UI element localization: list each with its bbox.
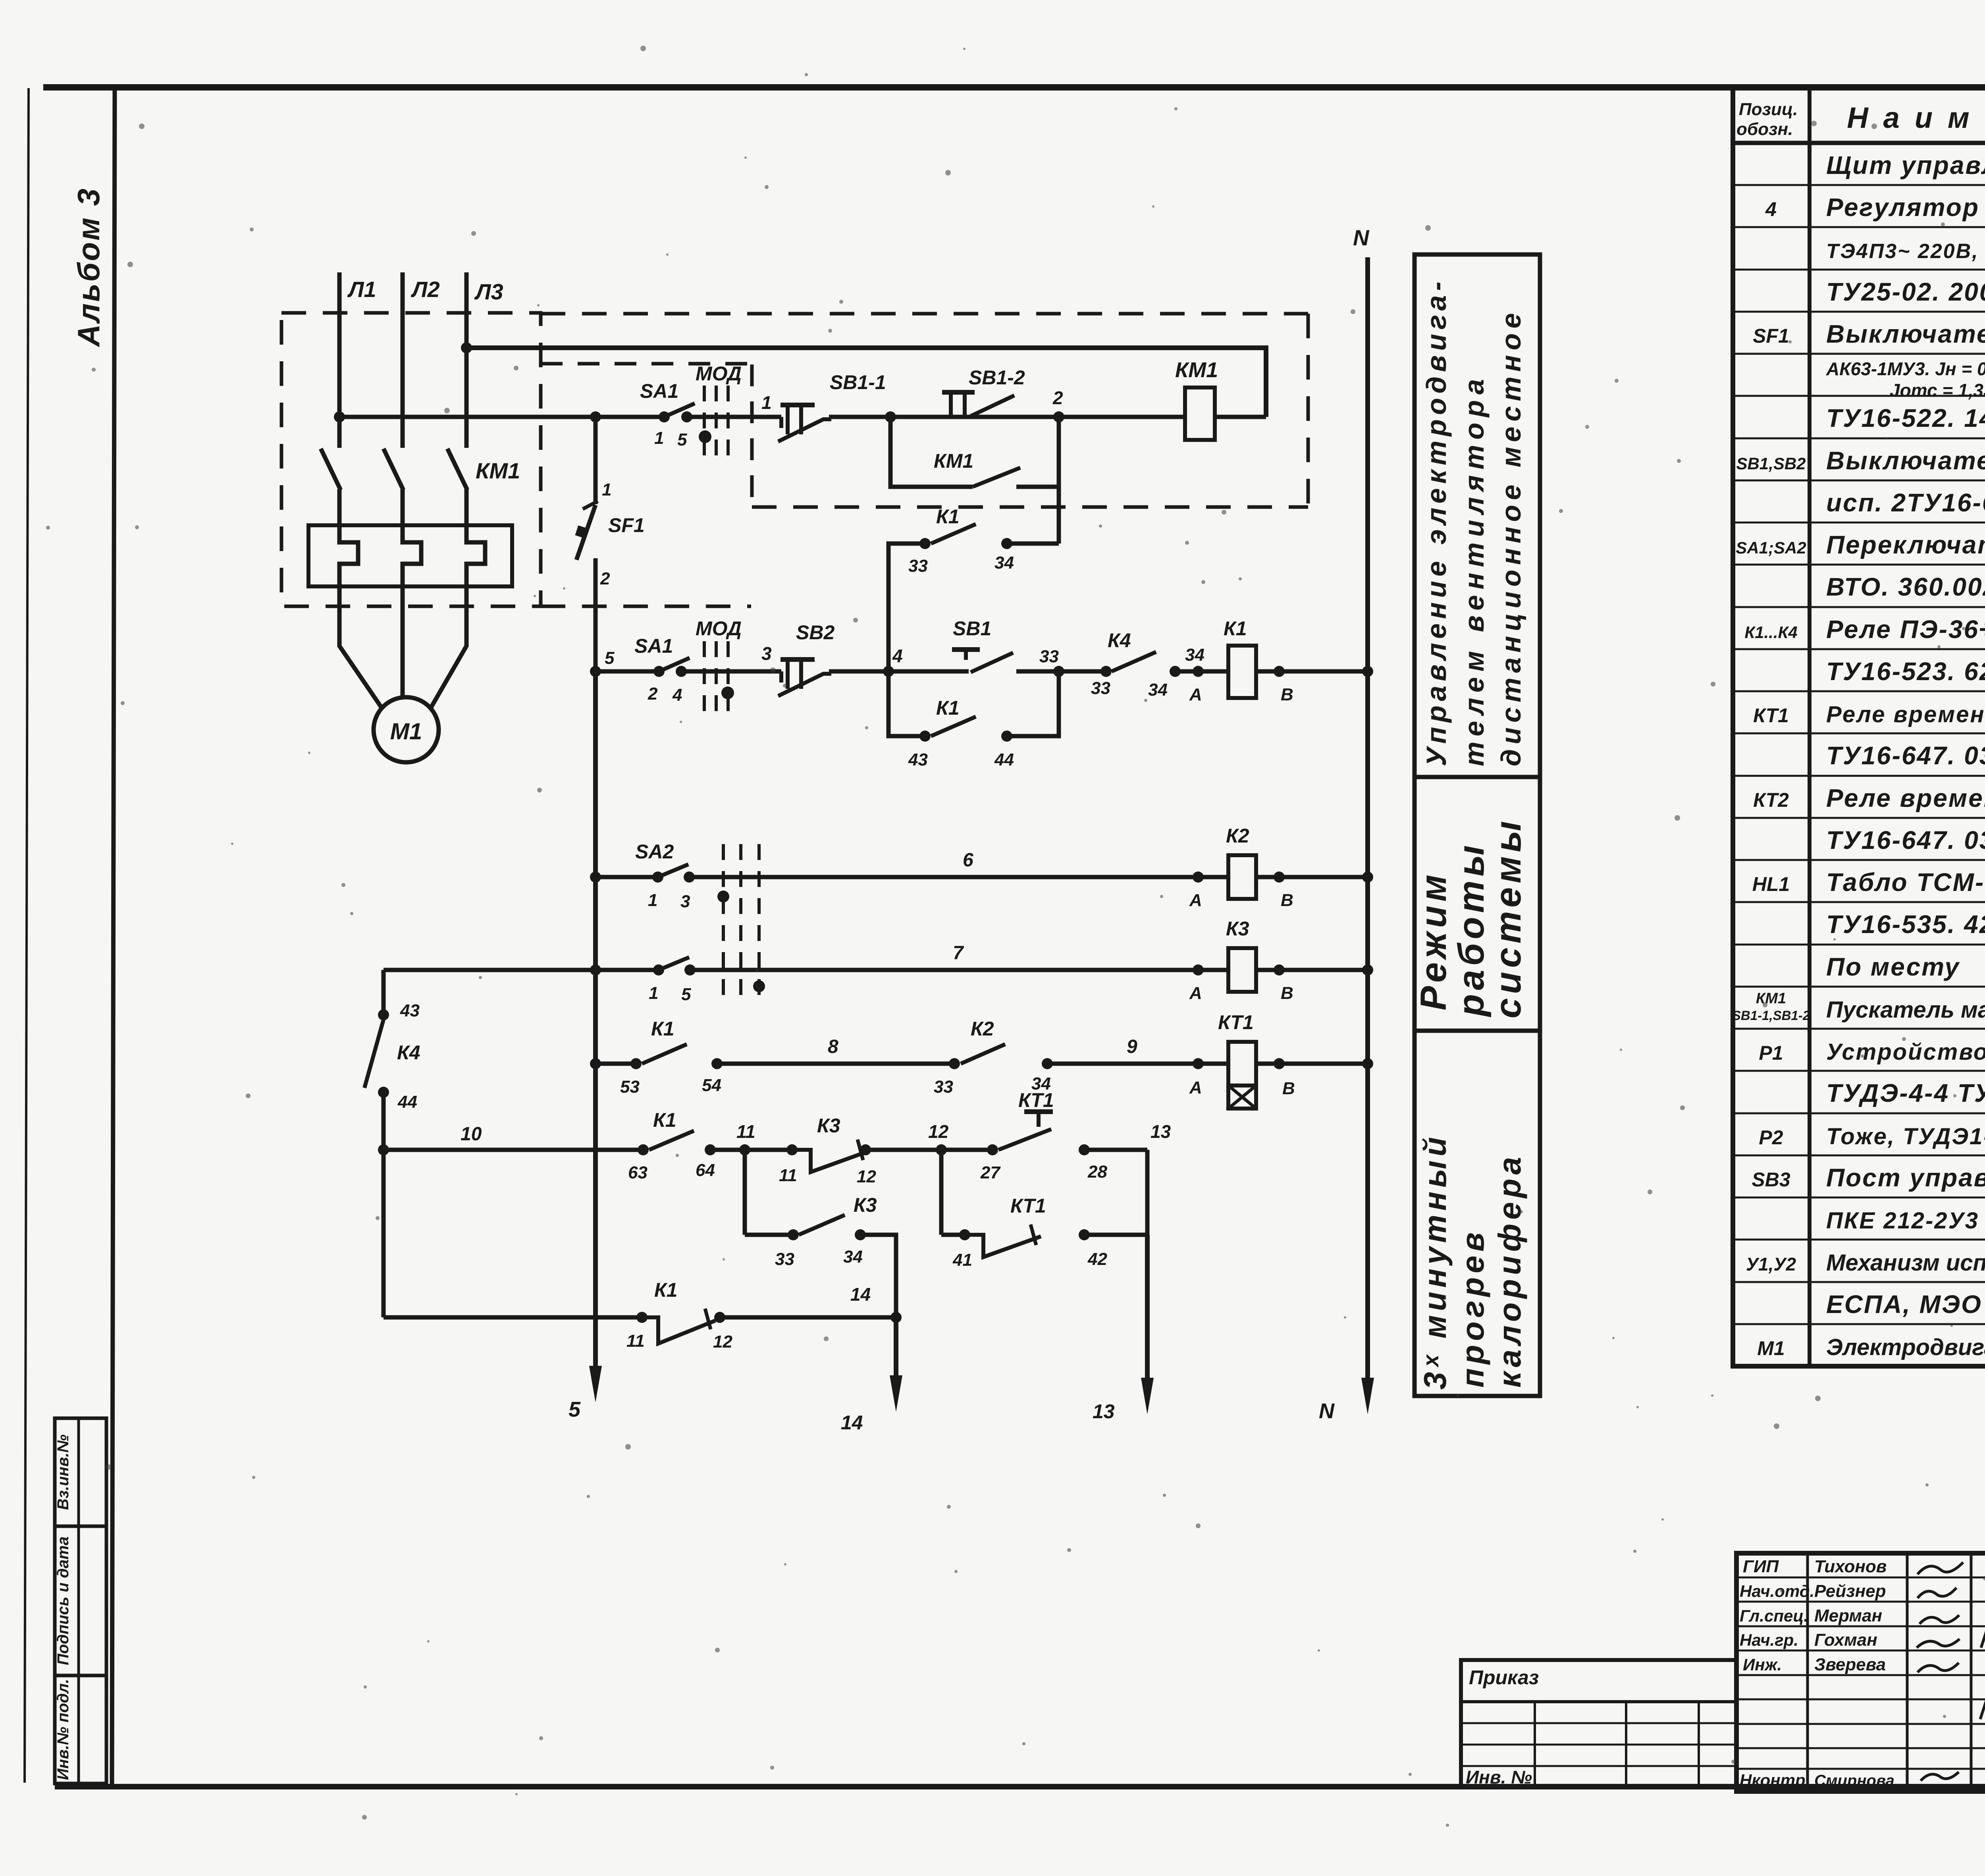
svg-text:SA1: SA1 <box>640 380 678 402</box>
relay contact K2 33-34 <box>949 1058 960 1069</box>
svg-text:КМ1: КМ1 <box>934 450 973 472</box>
terminal B dot rung 8 <box>1274 1058 1285 1069</box>
svg-text:Jотс = 1,3Jн: Jотс = 1,3Jн <box>1890 380 1985 401</box>
svg-text:К4: К4 <box>397 1041 420 1064</box>
svg-text:К1: К1 <box>936 697 960 719</box>
svg-text:34: 34 <box>994 553 1014 573</box>
svg-text:64: 64 <box>696 1161 715 1180</box>
relay contact K4 terminal 43 <box>378 1009 389 1020</box>
wire rung 2 to coil K1 <box>1175 669 1228 674</box>
svg-text:9: 9 <box>1127 1036 1137 1057</box>
contactor coil KM1 <box>1185 388 1215 440</box>
svg-text:27: 27 <box>980 1163 1001 1182</box>
svg-text:Альбом 3: Альбом 3 <box>71 187 106 347</box>
svg-text:3ˣ минутный: 3ˣ минутный <box>1417 1133 1453 1390</box>
svg-text:обозн.: обозн. <box>1736 120 1793 139</box>
svg-text:А: А <box>1189 685 1202 704</box>
contactor KM1 main contact pole 1 <box>321 449 341 490</box>
svg-text:КТ1: КТ1 <box>1018 1089 1054 1111</box>
svg-text:SB1-2: SB1-2 <box>969 366 1025 389</box>
svg-text:Подпись и дата: Подпись и дата <box>54 1537 72 1665</box>
terminal B dot rung 7 <box>1274 964 1285 976</box>
svg-text:А: А <box>1189 1078 1202 1097</box>
relay contact K1 43-44 <box>919 731 931 742</box>
svg-text:Нконтр.: Нконтр. <box>1740 1771 1810 1789</box>
node 11 junction <box>739 1144 750 1155</box>
svg-text:N: N <box>1319 1399 1335 1423</box>
svg-text:К1...К4: К1...К4 <box>1744 623 1797 642</box>
svg-text:Гл.спец.: Гл.спец. <box>1740 1606 1808 1625</box>
terminal A dot rung 7 <box>1193 964 1204 976</box>
relay contact K1 43-44 branch wire down <box>888 671 925 736</box>
svg-text:Табло ТСМ-III-У3: Табло ТСМ-III-У3 <box>1826 868 1985 897</box>
switch SA1 contact rung 1 <box>659 411 670 422</box>
wire rung 10 middle <box>865 1148 992 1152</box>
terminal B dot rung 6 <box>1274 871 1285 883</box>
svg-text:33: 33 <box>1039 647 1059 666</box>
dashed enclosure: control section bottom edge <box>752 505 1308 509</box>
wire rung 10 after K1 <box>710 1148 792 1152</box>
function box: fan motor control <box>1415 255 1540 777</box>
rung 7 junction on bus <box>590 964 601 976</box>
svg-text:SB1-1: SB1-1 <box>830 371 886 393</box>
svg-text:ГИП: ГИП <box>1743 1557 1779 1576</box>
component table header row <box>1733 141 1985 145</box>
svg-text:54: 54 <box>702 1076 721 1095</box>
svg-text:ТУ16-647. 036-86: ТУ16-647. 036-86 <box>1826 741 1985 770</box>
svg-text:6: 6 <box>963 850 973 871</box>
svg-text:Нач.отд.: Нач.отд. <box>1740 1582 1814 1600</box>
svg-text:ТУ16-522. 140-78: ТУ16-522. 140-78 <box>1826 404 1985 432</box>
rung 10 corner down <box>1145 1150 1150 1235</box>
svg-text:4: 4 <box>1765 198 1777 220</box>
margin stamp box: Подпись и дата <box>55 1526 106 1675</box>
svg-text:34: 34 <box>843 1247 863 1267</box>
svg-text:42: 42 <box>1087 1249 1107 1269</box>
svg-text:63: 63 <box>628 1163 648 1182</box>
wire rung 2 after SB1 <box>1016 669 1106 674</box>
svg-text:43: 43 <box>908 750 928 769</box>
svg-text:44: 44 <box>994 750 1014 769</box>
svg-text:КМ1: КМ1 <box>1756 990 1786 1007</box>
svg-text:Выключатель автоматический: Выключатель автоматический <box>1826 320 1985 348</box>
dashed enclosure: control section top edge <box>541 312 1308 316</box>
svg-text:53: 53 <box>620 1077 640 1097</box>
relay coil K3 <box>1228 948 1256 992</box>
component table outer border <box>1733 87 1985 1366</box>
svg-text:1: 1 <box>602 480 611 499</box>
time relay coil KT1 <box>1228 1042 1256 1085</box>
wire rung 2 to N <box>1256 669 1368 674</box>
pushbutton SB1 contact <box>952 647 980 652</box>
svg-text:3: 3 <box>680 892 690 911</box>
svg-text:12: 12 <box>857 1167 876 1186</box>
K4 branch junction with rung 10 <box>378 1144 389 1155</box>
svg-text:Реле времени ВЛ-65 УХЛ4: Реле времени ВЛ-65 УХЛ4 <box>1826 784 1985 812</box>
svg-text:34: 34 <box>1148 680 1168 700</box>
svg-text:К1: К1 <box>654 1279 678 1301</box>
svg-text:Пост управления кнопочный: Пост управления кнопочный <box>1826 1163 1985 1192</box>
svg-text:К1: К1 <box>653 1109 676 1131</box>
svg-text:Приказ: Приказ <box>1469 1666 1539 1689</box>
svg-text:Р2: Р2 <box>1759 1126 1783 1149</box>
switch SA2 contact rung 6 <box>652 871 663 883</box>
terminal B dot rung 2 <box>1274 666 1285 677</box>
svg-text:Инв. №: Инв. № <box>1466 1767 1532 1787</box>
svg-text:13: 13 <box>1151 1121 1171 1142</box>
svg-text:10: 10 <box>461 1124 482 1145</box>
left control bus upper <box>594 558 598 671</box>
svg-text:Электродвигатель: Электродвигатель <box>1826 1334 1985 1360</box>
svg-text:А: А <box>1189 891 1202 910</box>
wire rung 8 left <box>595 1062 636 1066</box>
prikaz box border <box>1461 1660 1736 1787</box>
circuit breaker SF1 <box>583 501 598 509</box>
svg-text:11: 11 <box>779 1166 797 1185</box>
dashed enclosure: power cabinet <box>281 313 541 606</box>
MOD linkage dot rung 2 <box>721 686 734 699</box>
svg-text:КМ1: КМ1 <box>1175 358 1218 382</box>
svg-text:Тоже, ТУДЭ1-4 ТУ25-7323-0001-8: Тоже, ТУДЭ1-4 ТУ25-7323-0001-88 <box>1826 1124 1985 1149</box>
svg-text:Рейзнер: Рейзнер <box>1814 1581 1886 1601</box>
svg-text:4: 4 <box>892 646 903 666</box>
svg-text:Реле ПЭ-36÷162 У3: Реле ПЭ-36÷162 У3 <box>1826 615 1985 644</box>
junction on N bus rung 7 <box>1362 964 1373 976</box>
wire rung 1 left segment <box>339 415 664 419</box>
function box: system mode <box>1415 777 1540 1031</box>
left bus arrow <box>589 1366 602 1402</box>
svg-text:Нач.гр.: Нач.гр. <box>1740 1631 1798 1649</box>
svg-text:Наименование: Наименование <box>1847 101 1985 134</box>
svg-text:41: 41 <box>952 1250 972 1270</box>
svg-text:12: 12 <box>713 1332 732 1352</box>
svg-text:5: 5 <box>605 648 615 668</box>
wire rung 7 to coil <box>690 968 1228 972</box>
sheet fold line left <box>25 88 29 1783</box>
motor M1 <box>374 697 439 762</box>
svg-text:исп. 2ТУ16-642.015-84: исп. 2ТУ16-642.015-84 <box>1826 488 1985 517</box>
wire rung 14 <box>384 1315 642 1320</box>
svg-text:4: 4 <box>672 685 682 705</box>
svg-text:Регулятор температуры: Регулятор температуры <box>1826 193 1985 222</box>
phase line L3 <box>464 272 469 448</box>
KM1 holding contact branch wire <box>890 417 973 487</box>
relay coil K2 <box>1228 855 1256 899</box>
svg-text:1: 1 <box>648 891 657 910</box>
svg-text:8: 8 <box>828 1036 838 1057</box>
MOD linkage dot rung 1 <box>699 430 711 443</box>
relay contact K3 11-12 break <box>786 1144 798 1155</box>
terminal A dot rung 2 <box>1193 666 1204 677</box>
wire 13 down to arrow <box>1145 1235 1150 1389</box>
svg-text:А: А <box>1189 983 1202 1003</box>
svg-text:Л1: Л1 <box>347 277 376 302</box>
relay contact K1 33-34 <box>919 538 931 549</box>
KM1 holding contact <box>973 468 1020 487</box>
svg-text:1: 1 <box>649 983 658 1003</box>
branch wire to node 13 <box>1084 1233 1147 1237</box>
svg-text:Мерман: Мерман <box>1814 1606 1882 1625</box>
svg-text:КТ1: КТ1 <box>1010 1195 1046 1217</box>
svg-text:Р1: Р1 <box>1759 1042 1783 1064</box>
svg-text:К1: К1 <box>936 505 960 528</box>
svg-text:1: 1 <box>761 392 772 413</box>
svg-text:SF1: SF1 <box>608 514 645 536</box>
node 12 branch wire down <box>939 1150 944 1235</box>
dashed enclosure: control section right edge <box>1307 314 1310 507</box>
svg-text:ТУ16-523. 622-82: ТУ16-523. 622-82 <box>1826 657 1985 686</box>
svg-text:34: 34 <box>1185 645 1204 665</box>
svg-text:SB1,SB2: SB1,SB2 <box>1736 454 1806 473</box>
relay contact K1 33-34 branch wire up <box>888 544 925 671</box>
svg-text:К3: К3 <box>854 1194 877 1216</box>
wire rung 6 to N <box>1256 875 1368 879</box>
terminal A dot rung 6 <box>1193 871 1204 883</box>
svg-text:ТЭ4П3~ 220В, 0÷40°С 50М: ТЭ4П3~ 220В, 0÷40°С 50М <box>1826 240 1985 263</box>
margin stamp boxes divider <box>77 1418 80 1783</box>
dashed enclosure: control section left edge <box>750 364 754 510</box>
svg-text:ТУ16-535. 424-79: ТУ16-535. 424-79 <box>1826 910 1985 939</box>
svg-text:К2: К2 <box>1226 825 1249 847</box>
SA2 linkage dashed lines <box>722 844 725 997</box>
phase line L2 <box>401 272 405 448</box>
relay contact K1 11-12 break <box>636 1312 648 1323</box>
frame top border <box>43 84 1985 91</box>
svg-text:28: 28 <box>1087 1162 1107 1182</box>
svg-text:SB3: SB3 <box>1752 1168 1790 1191</box>
svg-text:К3: К3 <box>1226 918 1249 940</box>
svg-text:АК63-1МУ3. Jн = 0,6А: АК63-1МУ3. Jн = 0,6А <box>1826 359 1985 379</box>
margin stamp box: Инв. № подл. <box>55 1675 106 1783</box>
svg-text:Л2: Л2 <box>410 277 440 302</box>
thermal overload relay block <box>308 525 512 586</box>
wire 14 down to arrow <box>894 1317 898 1386</box>
limit switch SB1-1 contact <box>779 417 783 428</box>
prikaz box columns <box>1534 1702 1536 1787</box>
wire rung 1 to supply loop <box>1215 415 1266 419</box>
branch from rung 1 to SF1 <box>590 411 601 422</box>
svg-text:11: 11 <box>736 1121 755 1142</box>
left control bus <box>593 671 598 1377</box>
junction on N bus rung 2 <box>1362 666 1373 677</box>
node 11 branch wire down <box>743 1150 747 1235</box>
svg-text:Переключатель П2Т-1: Переключатель П2Т-1 <box>1826 530 1985 559</box>
junction on N bus rung 8 <box>1362 1058 1373 1069</box>
svg-text:К3: К3 <box>817 1114 840 1137</box>
wire rung 6 left <box>595 875 658 879</box>
svg-text:ВТО. 360.002 ТУ: ВТО. 360.002 ТУ <box>1826 573 1985 601</box>
relay contact K4 vertical <box>364 1020 384 1088</box>
title block signature rows <box>1736 1577 1985 1579</box>
svg-text:SA1;SA2: SA1;SA2 <box>1736 538 1806 557</box>
switch SA2 contact rung 7 <box>653 964 664 976</box>
svg-text:13: 13 <box>1093 1400 1115 1423</box>
arrow wire 13 <box>1141 1378 1154 1414</box>
wire rung 8 to coil <box>1047 1062 1228 1066</box>
MOD linkage dashed lines rung 1 <box>703 386 706 457</box>
svg-text:ТУДЭ-4-4 ТУ25-7323-0001-88: ТУДЭ-4-4 ТУ25-7323-0001-88 <box>1826 1079 1985 1107</box>
terminal A dot rung 8 <box>1193 1058 1204 1069</box>
svg-text:В: В <box>1281 685 1293 704</box>
signature slashes column <box>1981 1564 1985 1648</box>
rung 6 junction on bus <box>590 871 601 883</box>
frame left border <box>112 86 115 1789</box>
signature scribbles <box>1918 1562 1963 1574</box>
svg-text:ЕСПА, МЭО: ЕСПА, МЭО <box>1826 1290 1982 1319</box>
node 2 vertical wire <box>1057 417 1061 544</box>
svg-text:5: 5 <box>677 430 687 449</box>
margin stamp box: Вз. инв. № <box>55 1418 106 1526</box>
wire rung 2 left <box>595 669 659 674</box>
relay contact K1 53-54 <box>630 1058 642 1069</box>
wire rung 14 right <box>720 1315 896 1320</box>
relay contact K4 terminal 44 <box>378 1087 389 1098</box>
wire rung 2 middle <box>829 669 969 674</box>
K4 branch top wire <box>382 970 386 1015</box>
svg-text:Пускатель магнитный: Пускатель магнитный <box>1826 997 1985 1023</box>
svg-text:14: 14 <box>841 1411 863 1434</box>
svg-text:1: 1 <box>654 428 664 448</box>
svg-text:МОД: МОД <box>696 362 742 385</box>
wire rung 10 right <box>1084 1148 1147 1152</box>
svg-text:ТУ25-02. 200.353-84: ТУ25-02. 200.353-84 <box>1826 278 1985 306</box>
svg-text:Зверева: Зверева <box>1814 1655 1886 1674</box>
junction to KM1 holding contact <box>885 411 896 422</box>
svg-text:5: 5 <box>569 1398 581 1421</box>
svg-text:ПКЕ 212-2У3 ТУ16-642.006-83: ПКЕ 212-2У3 ТУ16-642.006-83 <box>1826 1208 1985 1234</box>
relay coil K1 <box>1228 646 1256 698</box>
svg-text:Устройство терморегулирующее: Устройство терморегулирующее <box>1826 1039 1985 1065</box>
svg-text:К1: К1 <box>651 1018 675 1040</box>
node 12 junction <box>936 1144 947 1155</box>
svg-text:33: 33 <box>1091 679 1110 698</box>
svg-text:Смирнова: Смирнова <box>1814 1772 1894 1789</box>
wire rung 2 to SB2 <box>681 669 781 674</box>
svg-text:12: 12 <box>928 1121 949 1142</box>
svg-text:SF1: SF1 <box>1753 325 1789 347</box>
svg-text:КТ1: КТ1 <box>1753 704 1789 727</box>
wire rung 6 to coil <box>689 875 1228 879</box>
svg-text:телем вентилятора: телем вентилятора <box>1459 374 1490 766</box>
svg-text:дистанционное местное: дистанционное местное <box>1495 308 1526 766</box>
node 4 junction <box>883 666 894 677</box>
svg-text:К2: К2 <box>971 1018 994 1040</box>
svg-text:3: 3 <box>761 643 772 664</box>
svg-text:2: 2 <box>648 684 658 704</box>
svg-text:Тихонов: Тихонов <box>1814 1557 1887 1576</box>
svg-text:Инв.№ подл.: Инв.№ подл. <box>54 1679 72 1780</box>
phase line L1 <box>337 272 342 448</box>
node 14 junction <box>890 1312 902 1323</box>
svg-text:У1,У2: У1,У2 <box>1746 1254 1796 1274</box>
svg-text:В: В <box>1282 1079 1295 1098</box>
svg-text:SB1: SB1 <box>953 617 991 640</box>
svg-text:33: 33 <box>908 556 928 576</box>
svg-text:В: В <box>1281 983 1293 1003</box>
svg-text:В: В <box>1281 891 1293 910</box>
svg-text:системы: системы <box>1488 817 1528 1018</box>
SA2 linkage dots <box>717 891 729 902</box>
svg-text:HL1: HL1 <box>1752 873 1790 895</box>
relay contact K1 63-64 <box>638 1144 649 1155</box>
svg-text:N: N <box>1353 225 1370 250</box>
svg-text:К4: К4 <box>1108 629 1131 652</box>
supply loop wire from L3 <box>461 342 472 353</box>
svg-text:33: 33 <box>934 1077 953 1097</box>
svg-text:Инж.: Инж. <box>1743 1655 1782 1674</box>
dashed enclosure: link to power box <box>541 362 752 366</box>
svg-text:работы: работы <box>1451 841 1492 1018</box>
junction on N bus rung 6 <box>1362 871 1373 883</box>
rung 8 junction on bus <box>590 1058 601 1069</box>
relay contact K3 33-34 branch <box>745 1233 793 1237</box>
wire rung 1 to SB1-1 <box>687 415 781 419</box>
contactor KM1 main contact pole 3 <box>447 449 467 490</box>
svg-text:2: 2 <box>600 569 610 588</box>
wire rung 8 to N <box>1256 1062 1368 1066</box>
node 2 junction <box>1053 411 1064 422</box>
svg-text:SA2: SA2 <box>635 841 674 863</box>
svg-text:14: 14 <box>850 1284 871 1305</box>
limit switch SB2 contact <box>779 671 783 683</box>
arrow bus N <box>1361 1378 1374 1414</box>
svg-text:Позиц.: Позиц. <box>1739 100 1798 119</box>
svg-text:Реле времени РКВ11-43-122 УХЛ4: Реле времени РКВ11-43-122 УХЛ4 <box>1826 702 1985 727</box>
svg-text:ТУ16-647. 039-86: ТУ16-647. 039-86 <box>1826 826 1985 854</box>
wire rung 1 middle <box>829 415 1185 419</box>
function box: heater warm-up <box>1415 1031 1540 1396</box>
wire rung 7 to N <box>1256 968 1368 972</box>
svg-text:SB1-1,SB1-2: SB1-1,SB1-2 <box>1732 1008 1810 1023</box>
svg-text:прогрев: прогрев <box>1455 1228 1490 1388</box>
prikaz box rows <box>1461 1700 1736 1703</box>
component table row lines <box>1733 184 1985 186</box>
dashed enclosure: bottom extension <box>541 605 751 608</box>
switch SA1 contact rung 2 <box>653 666 665 677</box>
svg-text:калорифера: калорифера <box>1492 1153 1527 1388</box>
svg-text:К1: К1 <box>1224 617 1247 640</box>
svg-text:Режим: Режим <box>1413 871 1454 1010</box>
svg-text:Л3: Л3 <box>474 279 503 304</box>
K4 branch wire down <box>382 1092 386 1317</box>
pushbutton SB1-2 contact <box>942 390 975 395</box>
wire rung 8 middle <box>717 1062 954 1066</box>
svg-text:Вз.инв.№: Вз.инв.№ <box>54 1434 72 1510</box>
wire rung 7 from K4 branch <box>384 968 659 972</box>
time contact KT1 41-42 break branch <box>941 1233 965 1237</box>
contactor KM1 main contact pole 2 <box>384 449 403 490</box>
svg-text:Механизм исполнительный: Механизм исполнительный <box>1826 1250 1985 1276</box>
svg-text:33: 33 <box>775 1249 794 1269</box>
svg-text:44: 44 <box>397 1092 417 1112</box>
svg-text:М1: М1 <box>1757 1337 1785 1359</box>
svg-text:Щит управления: Щит управления <box>1826 151 1985 179</box>
svg-text:Управление электродвига-: Управление электродвига- <box>1421 277 1452 766</box>
svg-text:Гохман: Гохман <box>1814 1630 1877 1650</box>
rung 2 junction on bus <box>590 666 601 677</box>
svg-text:Выключатель конечный КЕ011: Выключатель конечный КЕ011 <box>1826 446 1985 475</box>
svg-text:М1: М1 <box>390 719 422 744</box>
svg-text:SB2: SB2 <box>796 621 834 644</box>
svg-text:11: 11 <box>626 1331 645 1351</box>
svg-text:43: 43 <box>400 1001 420 1020</box>
neutral bus N <box>1365 257 1370 1389</box>
frame bottom border <box>55 1784 1985 1789</box>
node on L1 feeding control rung 1 <box>334 411 345 422</box>
svg-text:По месту: По месту <box>1826 952 1960 981</box>
title block signature columns <box>1806 1553 1809 1791</box>
junction of K1 43-44 branch <box>1053 666 1064 677</box>
